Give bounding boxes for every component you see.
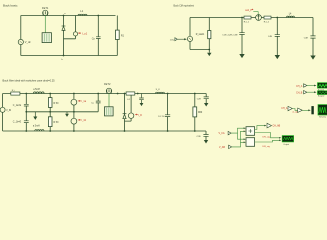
wire left branch circuit1 bbox=[20, 16, 22, 56]
node junction C1E top bbox=[241, 17, 243, 19]
scope block3 bbox=[318, 105, 327, 115]
wire sum1 to output bbox=[255, 133, 280, 138]
port CH_B row2 bbox=[304, 91, 307, 94]
buffer triangle CH_AB bbox=[267, 123, 272, 128]
probe arrow I_1a bbox=[78, 100, 81, 101]
voltage source V_IN bbox=[0, 107, 5, 112]
resistor Rload bbox=[193, 107, 197, 117]
resistor R_L2 bbox=[264, 16, 271, 19]
transistor FET1 bbox=[43, 10, 48, 15]
svg-text:R_L1: R_L1 bbox=[244, 22, 250, 24]
node junction mid amm bbox=[73, 111, 75, 113]
resistor R1 bbox=[116, 30, 120, 39]
ground C4Ea bbox=[275, 55, 280, 59]
node junction bottom rail joints bbox=[25, 130, 74, 132]
svg-text:V_AB: V_AB bbox=[219, 146, 225, 149]
ground C1E bbox=[239, 54, 244, 58]
node junction diode2 bottom bbox=[124, 130, 126, 132]
svg-text:R60: R60 bbox=[198, 112, 203, 114]
ammeter ID bbox=[128, 113, 134, 119]
wire capacitor branch bbox=[97, 16, 99, 56]
inductor L1b bbox=[35, 130, 44, 131]
transistor FET2 bbox=[106, 88, 111, 93]
svg-text:C_1a=E: C_1a=E bbox=[13, 105, 22, 107]
wire C1E branch bbox=[241, 18, 243, 55]
gating block G2 bbox=[105, 107, 114, 116]
svg-text:I_1a: I_1a bbox=[81, 101, 87, 103]
resistor R50a bbox=[48, 98, 52, 108]
node junction capleg top bbox=[25, 93, 27, 95]
port V_CA bbox=[228, 131, 231, 134]
wire snubber cap stub bbox=[141, 94, 143, 104]
scope block2 bbox=[318, 91, 327, 95]
arrowheads output in bbox=[279, 137, 281, 141]
inductor L4 bbox=[287, 16, 295, 17]
wire row3 out bbox=[302, 109, 309, 111]
wire bottom rail circuit3 bbox=[3, 130, 206, 132]
wire VCA to sum2 bbox=[238, 133, 244, 139]
wire capacitor Ca branch bbox=[97, 94, 99, 112]
port CH_A row1 bbox=[304, 84, 307, 87]
capacitor C_1b bbox=[24, 121, 29, 123]
current source CCCS1 bbox=[256, 15, 262, 21]
ground C2a bbox=[204, 103, 208, 107]
ground C2b bbox=[204, 140, 208, 144]
wire ammeter D branch bbox=[125, 94, 132, 122]
node junction diode bottom bbox=[63, 55, 65, 57]
wire diode branch bbox=[63, 16, 65, 56]
node junction RLo right bbox=[137, 93, 139, 95]
capacitor C4Eb bbox=[310, 36, 315, 38]
svg-text:Scope2: Scope2 bbox=[318, 96, 324, 98]
ground ammeter1 bbox=[207, 50, 211, 57]
svg-text:I_D: I_D bbox=[138, 115, 142, 117]
capacitor C1E+C2E+C3E bbox=[239, 33, 244, 35]
node junction amm top bbox=[73, 93, 75, 95]
ammeter A1 bbox=[73, 32, 77, 36]
summing block S2 bbox=[246, 138, 255, 147]
wire Co branch bbox=[167, 94, 169, 132]
svg-text:DR_sig: DR_sig bbox=[263, 146, 271, 148]
svg-text:Simview: Simview bbox=[319, 117, 327, 119]
resistor R50b bbox=[48, 117, 52, 127]
wire ammeter branch top c3 bbox=[73, 94, 75, 112]
gating block G1 bbox=[42, 33, 51, 43]
svg-text:C4E: C4E bbox=[304, 38, 309, 40]
capacitor C2b bbox=[203, 135, 208, 137]
node junction Ca top bbox=[97, 93, 99, 95]
probe arrow I_1b bbox=[78, 119, 81, 120]
capacitor C2a bbox=[204, 97, 209, 99]
node junction Co top bbox=[167, 93, 169, 95]
diode D2 bbox=[123, 114, 127, 119]
arrowhead buffer in bbox=[264, 125, 266, 127]
resistor R_in bbox=[11, 92, 20, 95]
wire row3 link bbox=[292, 109, 297, 111]
wire mid rail circuit3 bbox=[26, 111, 98, 113]
node junction ground1 bbox=[208, 49, 210, 51]
svg-text:DR_sig: DR_sig bbox=[263, 137, 271, 139]
wire C2b end branch bbox=[205, 131, 207, 140]
arrowheads sum inputs bbox=[244, 127, 246, 143]
wire R_stab1 branch bbox=[208, 18, 210, 50]
wire right branch circuit1 bbox=[116, 16, 118, 56]
scope block1 bbox=[318, 83, 327, 88]
svg-text:DC 50: DC 50 bbox=[158, 116, 165, 118]
ammeter I1b bbox=[71, 118, 77, 124]
wire ammeter branch bottom c3 bbox=[73, 112, 75, 131]
svg-text:C2E: C2E bbox=[197, 99, 202, 101]
node junction Rload bottom bbox=[194, 130, 196, 132]
probe arrow I_o1 bbox=[78, 33, 81, 34]
svg-text:CH_B: CH_B bbox=[296, 93, 303, 95]
buffer triangle row3 a bbox=[288, 106, 292, 110]
arrowhead row3 bbox=[308, 109, 310, 111]
arrowhead row2 bbox=[314, 91, 316, 93]
wire sum2 to output bbox=[255, 140, 280, 142]
node junction diode2 top bbox=[124, 93, 126, 95]
svg-text:Buck CM equivalent: Buck CM equivalent bbox=[174, 5, 195, 8]
node junction mid left bbox=[25, 111, 27, 113]
node junction Rload top bbox=[194, 93, 196, 95]
svg-text:a 5mH: a 5mH bbox=[33, 89, 40, 91]
svg-text:a 5mH: a 5mH bbox=[33, 125, 40, 127]
node junction C1 top bbox=[97, 15, 99, 17]
svg-text:C_1b=E: C_1b=E bbox=[13, 122, 22, 124]
wire Rload branch bbox=[194, 94, 196, 132]
ground Co1 bbox=[140, 103, 144, 106]
resistor R_Lo bbox=[126, 92, 135, 95]
svg-text:CH_A: CH_A bbox=[281, 107, 288, 110]
svg-text:CH_A: CH_A bbox=[296, 85, 303, 88]
resistor R_L1 bbox=[244, 16, 251, 19]
wire ammeter branch bbox=[64, 16, 76, 39]
wire row2 bbox=[307, 91, 315, 93]
node junction C4Ea top bbox=[276, 17, 278, 19]
svg-text:R_stab1: R_stab1 bbox=[196, 33, 205, 36]
wire left branch circuit3 bbox=[2, 94, 4, 132]
wire top rail circuit1 bbox=[21, 15, 116, 17]
node junction mid R bbox=[49, 111, 51, 113]
svg-text:CH_AB: CH_AB bbox=[273, 125, 281, 128]
wire VCA to sum1 bbox=[231, 128, 244, 133]
svg-text:C1E+C2E+C3E: C1E+C2E+C3E bbox=[222, 34, 238, 36]
wire bottom rail circuit2 bbox=[190, 49, 209, 51]
svg-text:R 50: R 50 bbox=[54, 122, 60, 124]
wire VAB to sum2 bbox=[232, 142, 244, 147]
inductor L1 bbox=[78, 14, 87, 15]
wire C4Ea branch bbox=[276, 18, 278, 56]
wire source control bbox=[177, 38, 186, 40]
capacitor C_1a bbox=[24, 104, 29, 106]
capacitor Co1 bbox=[139, 98, 144, 100]
svg-text:I_o1: I_o1 bbox=[82, 31, 88, 35]
port V_AB bbox=[229, 145, 232, 148]
svg-text:sub_1: sub_1 bbox=[245, 10, 252, 12]
probe arrow I_D bbox=[135, 114, 138, 115]
voltage source V_dc bbox=[18, 39, 23, 44]
capacitor Ca bbox=[96, 101, 101, 103]
wire gate FET2 bbox=[108, 94, 110, 107]
ground mid1 bbox=[33, 112, 37, 120]
wire C2a end branch bbox=[205, 94, 207, 104]
wire R branch bottom bbox=[49, 112, 51, 131]
voltage source Vac2 bbox=[187, 36, 192, 41]
arrowhead row1 bbox=[314, 85, 316, 87]
node junction R top bbox=[49, 93, 51, 95]
wire row1 bbox=[307, 85, 315, 87]
wire bottom rail circuit1 bbox=[21, 55, 118, 57]
wire gate FET1 bbox=[44, 16, 46, 33]
wire diode branch c3 bbox=[124, 94, 126, 132]
scope input bar bbox=[311, 106, 313, 114]
svg-text:C4E: C4E bbox=[268, 36, 273, 38]
wire capacitor leg bbox=[25, 94, 27, 132]
probe glyph sub_1 bbox=[251, 9, 253, 10]
svg-text:C2E: C2E bbox=[197, 136, 202, 138]
resistor R_stab1 bbox=[208, 31, 211, 39]
wire top rail circuit3 bbox=[3, 93, 207, 95]
wire sub1 control bbox=[253, 11, 258, 14]
capacitor C4Ea bbox=[275, 35, 280, 37]
wire VAB to sum1 bbox=[241, 131, 244, 142]
output block bbox=[282, 136, 293, 142]
svg-text:Buck filter ideal with switche: Buck filter ideal with switches case dmd… bbox=[3, 79, 56, 83]
node junction diode top bbox=[63, 15, 65, 17]
svg-text:Buck basic: Buck basic bbox=[3, 4, 18, 8]
wire top rail circuit2 bbox=[190, 17, 313, 19]
summing block S1 bbox=[246, 127, 255, 136]
capacitor Co bbox=[96, 37, 101, 39]
svg-text:FET2: FET2 bbox=[104, 82, 111, 86]
inductor L_o bbox=[156, 92, 165, 93]
buffer triangle row3 b bbox=[298, 108, 303, 112]
svg-text:V_IN: V_IN bbox=[6, 110, 11, 112]
svg-text:V_dc: V_dc bbox=[25, 40, 32, 44]
diode D1 bbox=[62, 26, 66, 30]
inductor L1a bbox=[33, 92, 44, 94]
node junction a2 bbox=[117, 93, 119, 95]
wire C4Eb branch bbox=[312, 18, 314, 56]
svg-text:V_CA: V_CA bbox=[219, 132, 225, 135]
port Vin triangle bbox=[175, 38, 177, 41]
svg-text:R_i: R_i bbox=[12, 90, 16, 92]
node junction Co bottom bbox=[167, 130, 169, 132]
svg-text:R 50: R 50 bbox=[54, 103, 60, 105]
wire sum1 to buffer bbox=[255, 126, 266, 130]
arrowhead source control bbox=[184, 38, 187, 40]
ground mid2 bbox=[65, 112, 69, 117]
svg-text:R_L2: R_L2 bbox=[264, 22, 270, 24]
svg-text:FET1: FET1 bbox=[42, 6, 49, 10]
wire left branch circuit2 bbox=[189, 18, 191, 50]
ground C4Eb bbox=[310, 56, 315, 60]
svg-text:I_1b: I_1b bbox=[81, 120, 87, 122]
capacitor C_o bbox=[165, 115, 170, 117]
ammeter I1a bbox=[71, 99, 77, 105]
wire R branch top bbox=[49, 94, 51, 112]
svg-text:Output: Output bbox=[283, 143, 289, 146]
